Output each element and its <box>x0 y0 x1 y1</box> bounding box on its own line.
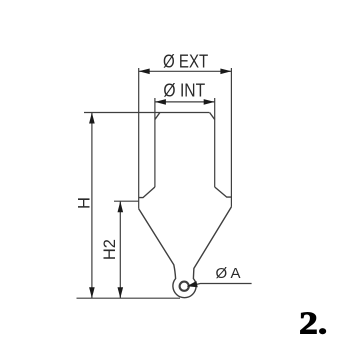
svg-text:2.: 2. <box>299 305 327 340</box>
svg-text:Ø EXT: Ø EXT <box>163 51 208 72</box>
svg-text:H2: H2 <box>101 239 119 260</box>
svg-text:Ø INT: Ø INT <box>163 80 205 100</box>
svg-text:H: H <box>75 197 93 209</box>
svg-text:Ø A: Ø A <box>216 265 241 282</box>
